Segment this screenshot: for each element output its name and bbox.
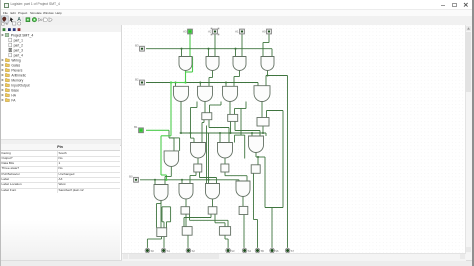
wire HA2 carry <box>234 121 236 130</box>
output pin S5 <box>255 248 260 253</box>
wire HA1 sum drop <box>201 122 203 142</box>
wire HA2 carry drop <box>259 130 261 136</box>
wire HA2 in2 drop <box>245 101 247 108</box>
svg-text:Memory: Memory <box>11 78 23 82</box>
wire G9r3 drop <box>164 176 166 184</box>
wire a0 end <box>238 179 240 180</box>
wire FA1 sum jog <box>190 174 196 176</box>
adder D3 <box>219 226 230 235</box>
wire bright jog 2 <box>161 174 167 176</box>
and gate G15 <box>206 183 220 199</box>
svg-text:Arithmetic: Arithmetic <box>11 73 26 77</box>
half adder HA2 <box>228 114 238 121</box>
wire HA2 sum <box>230 121 232 133</box>
wire bright vertical 2 <box>160 135 162 174</box>
node a2 junction <box>174 81 176 83</box>
input pin a2 <box>140 80 145 85</box>
wire D1 in2 jog <box>167 220 171 222</box>
wire bright along bus <box>171 81 186 83</box>
output pin S7 <box>285 248 290 253</box>
wire C2 carry jog <box>215 221 225 223</box>
wire S4 drop <box>243 214 245 247</box>
wire G4 branch <box>266 74 288 76</box>
input pin b2 <box>213 29 218 34</box>
wire b0 down <box>268 34 270 43</box>
wire HA1 carry jog <box>209 126 229 128</box>
node bright a2 tap <box>170 81 172 83</box>
svg-text:A0: A0 <box>262 29 266 33</box>
horizontal scrollbar <box>122 253 466 261</box>
wire G6r2 out 2 <box>196 101 198 107</box>
vertical scrollbar <box>465 25 473 253</box>
and gate G8r2 <box>254 85 270 101</box>
wire HA1 sum jog <box>202 121 204 123</box>
wire HA1 in2 <box>209 105 211 113</box>
wire b1 to gate G3 <box>241 34 243 57</box>
wire mid vertical 2 <box>208 133 210 180</box>
wire S0 drop <box>146 239 148 248</box>
wire row3 bus <box>180 132 266 134</box>
and gate G4 <box>261 56 274 70</box>
wire G13 to D1 <box>156 203 158 227</box>
wire HA3 jog <box>267 109 284 111</box>
AND gate icon <box>44 18 48 22</box>
node a0 junction <box>207 178 209 180</box>
wire S3 drop <box>227 239 229 248</box>
wire S1 vertical <box>163 221 165 247</box>
wire C2 sum drop <box>183 217 185 226</box>
wire G13 out <box>160 200 162 227</box>
wire a2 end drop <box>257 82 259 85</box>
adder C2 <box>208 206 217 213</box>
adder C1 <box>181 206 190 213</box>
and gate G10r3 <box>191 142 206 158</box>
wire a1 drop <box>168 130 170 138</box>
wire FA1 carry jog <box>200 176 217 178</box>
and gate G16 <box>236 181 250 197</box>
svg-text:A1: A1 <box>235 29 239 33</box>
svg-text:B3: B3 <box>135 43 139 47</box>
title bar <box>0 0 474 10</box>
wire G12r3 drop <box>257 157 259 165</box>
wire G9r3 jog <box>165 175 171 177</box>
wire rail down <box>244 135 246 158</box>
left panel background <box>0 25 122 261</box>
wire C1 carry drop <box>227 220 229 226</box>
wire HA1 carry <box>208 119 210 127</box>
input pin a3 <box>140 46 145 51</box>
node bright a0 tap <box>165 178 167 180</box>
input pin b3 <box>188 29 193 34</box>
poke tool button (selected) <box>1 16 8 23</box>
wire G1 output bright <box>185 68 187 83</box>
node G4 junction <box>266 74 268 76</box>
wire HA3 in2 <box>266 110 268 117</box>
input pin a1 <box>139 127 144 132</box>
node a3 junction <box>207 47 209 49</box>
wire to row3 bus <box>190 107 192 133</box>
wire G2 jog <box>209 76 213 78</box>
wire G8r2 out <box>261 101 263 117</box>
adder B2 <box>221 164 229 172</box>
wire FA2 carry jog <box>225 174 247 176</box>
window right border <box>472 0 474 266</box>
NOT gate icon <box>38 18 41 21</box>
node r3 join <box>180 131 182 133</box>
node row3 junction 1 <box>189 131 191 133</box>
wire HA1 sum <box>203 119 205 122</box>
wire row3 branch G12 <box>251 133 253 136</box>
wire G5r2 out <box>180 101 182 133</box>
input pin b0 <box>267 29 272 34</box>
canvas <box>122 25 466 253</box>
and gate G14 <box>179 183 193 199</box>
wire a0 bus <box>140 178 239 180</box>
node G12r3 branch <box>257 155 259 157</box>
node HA2 join <box>229 131 231 133</box>
wire a0 branch <box>208 179 210 183</box>
wire a1 to G9r3 <box>173 137 175 150</box>
output pin S4 <box>242 248 247 253</box>
adder B3 <box>251 164 260 173</box>
wire S2 drop <box>187 235 189 248</box>
wire bridge left <box>161 206 163 221</box>
wire a0 branch <box>181 179 183 183</box>
wire C2 sum jog <box>184 216 211 218</box>
wire HA1 carry drop <box>228 127 230 142</box>
main toolbar <box>0 16 474 26</box>
wire row3 end <box>265 133 267 136</box>
wire a2 branch <box>199 82 201 86</box>
and gate G9r3 <box>164 150 179 166</box>
svg-text:B0: B0 <box>129 174 133 178</box>
wire to S5 drop <box>271 207 273 247</box>
wire bridge top <box>162 205 171 207</box>
output pin S1 <box>161 248 166 253</box>
bottom window strip <box>0 260 474 266</box>
node row3 junction 2 <box>219 131 221 133</box>
wire HA2 in2 <box>234 108 236 114</box>
wire G12r3 jog <box>256 156 265 158</box>
and gate G3 <box>233 56 246 70</box>
selection handles on pin b2 <box>211 27 220 35</box>
input pin a0 <box>134 177 139 182</box>
svg-text:part_1: part_1 <box>14 38 24 42</box>
wire G14 out <box>185 199 187 207</box>
wire right step jog <box>265 206 283 208</box>
toolbox colored squares <box>0 27 26 33</box>
and gate G13 <box>154 184 168 200</box>
table empty area gradient <box>0 193 120 260</box>
wire FA1 sum <box>195 172 197 176</box>
wire row3 drop G10 <box>193 138 195 142</box>
window buttons <box>441 4 445 7</box>
wire a2 branch <box>175 82 177 86</box>
wire C1 carry <box>189 214 191 220</box>
svg-text:A3: A3 <box>183 29 187 33</box>
wire D3 out <box>224 235 226 239</box>
node a3 junction <box>180 47 182 49</box>
output pin icon <box>32 18 36 22</box>
node HA3 join <box>262 131 264 133</box>
output pin S6 <box>270 248 275 253</box>
wire HA2 tap down <box>240 108 242 135</box>
wire row3 branch G11 <box>219 133 221 143</box>
wire bright drop <box>166 175 168 180</box>
adder D2 <box>182 226 192 235</box>
wire bright vertical <box>170 82 172 135</box>
wire FA1 carry drop <box>216 177 218 183</box>
and gate G12r3 <box>249 136 264 153</box>
wire G13 out <box>160 200 162 203</box>
wire G16 out <box>242 196 244 206</box>
wire G11 right rail drop <box>234 135 236 142</box>
OR gate icon <box>49 18 52 22</box>
wire FA3 out <box>253 173 255 219</box>
wire a3 branch <box>235 48 237 56</box>
output pin S2 <box>186 248 191 253</box>
svg-text:Wiring: Wiring <box>11 58 21 62</box>
wire S1 tap <box>162 220 164 222</box>
svg-text:Base: Base <box>11 88 19 92</box>
wire G3 to row2 <box>233 76 235 86</box>
wire bright bypass <box>192 56 194 72</box>
wire rail G9r3 <box>169 136 180 138</box>
wire bright bypass jog <box>186 71 193 73</box>
wire D3 jog <box>225 238 228 240</box>
wire b0 to gate G4 <box>262 42 264 56</box>
wire G11 right rail <box>235 134 245 136</box>
menu bar <box>0 10 474 17</box>
wire a0 branch <box>154 179 156 184</box>
wire S6 drop <box>257 219 259 247</box>
svg-text:Input/Output: Input/Output <box>11 83 29 87</box>
wire a1 jog <box>169 136 174 138</box>
wire bridge right <box>170 206 172 221</box>
wire HA2 in2 jog <box>235 107 247 109</box>
wire G4 out <box>267 70 269 75</box>
wire G12r3 out <box>255 152 257 157</box>
wire G9r3 out <box>170 166 172 176</box>
wire row3 branch G10 <box>190 133 192 138</box>
wire a1 bright <box>146 129 169 131</box>
svg-text:Plexers: Plexers <box>11 68 22 72</box>
svg-text:Project SMT_4: Project SMT_4 <box>11 33 34 37</box>
adder C3 <box>239 206 248 214</box>
wire G11r3 out <box>224 158 226 164</box>
wire D1 out <box>161 236 163 239</box>
half adder HA3 <box>257 117 269 126</box>
output pin S3 <box>226 248 231 253</box>
wire HA3 sum <box>262 126 264 133</box>
wire G10r3 out <box>197 158 199 164</box>
wire a3 branch <box>181 48 183 56</box>
svg-text:part_2: part_2 <box>14 43 24 47</box>
and gate G1 <box>179 56 192 70</box>
input pin b1 <box>240 29 245 34</box>
output pin S0 <box>145 248 150 253</box>
wire HA2 carry jog <box>235 129 260 131</box>
and gate G6r2 <box>198 86 213 101</box>
wire b0 jog <box>263 41 269 43</box>
half adder HA1 <box>202 112 212 119</box>
wire G6r2 jog 2 <box>191 106 198 108</box>
wire long vertical 2 <box>282 110 284 207</box>
wire G4 to row2 <box>265 75 267 85</box>
wire a2 branch <box>225 82 227 86</box>
wire G9r3 right input <box>179 137 181 150</box>
adder D1 <box>157 227 167 236</box>
wire G13 jog <box>157 202 162 204</box>
input pin icon <box>26 18 30 22</box>
wire FA1 sum drop <box>189 175 191 183</box>
wire a2 bus <box>146 81 258 83</box>
wire G3 jog <box>234 75 240 77</box>
node a0 junction <box>181 178 183 180</box>
node a2 junction <box>225 81 227 83</box>
wire G6r2 out <box>204 101 206 112</box>
wire mid vertical 1 <box>206 125 208 183</box>
wire FA2 sum <box>224 172 226 176</box>
wire G3 out <box>239 70 241 76</box>
node a0 junction <box>154 178 156 180</box>
node bright junction <box>184 81 186 83</box>
wire C2 carry drop <box>224 222 226 226</box>
and gate G2 <box>206 56 219 70</box>
adder B1 <box>194 164 202 172</box>
node row3 junction 3 <box>251 131 253 133</box>
wire right step down <box>264 157 266 208</box>
svg-text:B1: B1 <box>134 125 138 129</box>
wire long right vertical <box>287 75 289 247</box>
wire C2 sum <box>210 214 212 217</box>
wire D1 jog <box>147 238 161 240</box>
wire a3 end drop <box>271 48 273 56</box>
wire FA1 carry <box>199 172 201 178</box>
svg-text:HA: HA <box>11 93 16 97</box>
wire HA1 in2 drop <box>220 101 222 105</box>
and gate G5r2 <box>174 86 189 101</box>
and gate G11r3 <box>218 142 233 158</box>
explorer toolbar <box>0 25 121 32</box>
attribute table <box>0 144 120 151</box>
wire HA1 in2 jog <box>210 104 222 106</box>
edit tool arrow <box>10 17 14 22</box>
wire bright jog <box>161 134 171 136</box>
svg-text:B2: B2 <box>135 77 139 81</box>
wire D1 in2 <box>166 221 168 227</box>
svg-text:A2: A2 <box>208 29 212 33</box>
and gate G7r2 <box>223 86 238 101</box>
svg-text:Gates: Gates <box>11 63 20 67</box>
wire b3 to gate G1 <box>189 34 191 57</box>
wire C1 carry jog <box>190 219 229 221</box>
wire a3 branch <box>208 48 210 56</box>
wire FA2 carry drop <box>246 175 248 180</box>
svg-text:part_3: part_3 <box>14 48 24 52</box>
node a2 junction <box>199 81 201 83</box>
wire G15 out <box>212 199 214 207</box>
wire a3 bus <box>146 47 272 49</box>
wire C2 carry <box>214 214 216 223</box>
wire G2 to row2 <box>208 77 210 86</box>
svg-text:part_4: part_4 <box>14 53 24 57</box>
svg-text:FA: FA <box>11 98 16 102</box>
node a3 junction <box>234 47 236 49</box>
wire row3 jog G10 <box>191 137 195 139</box>
wire C1 to D2 <box>185 214 187 227</box>
wire G7r2 out <box>229 101 231 114</box>
wire b2 to gate G2 <box>214 34 216 57</box>
wire G2 out <box>212 70 214 77</box>
wire S6 jog <box>254 218 258 220</box>
